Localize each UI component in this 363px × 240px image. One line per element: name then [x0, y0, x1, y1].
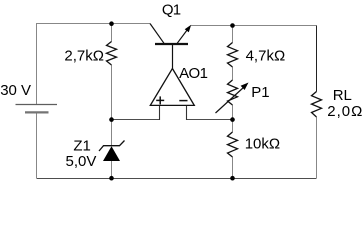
svg-text:2,7kΩ: 2,7kΩ [64, 48, 104, 65]
svg-text:10kΩ: 10kΩ [245, 136, 280, 153]
svg-text:RL: RL [333, 87, 352, 104]
svg-text:5,0V: 5,0V [66, 153, 97, 170]
svg-text:Q1: Q1 [162, 1, 181, 18]
svg-text:P1: P1 [251, 84, 269, 101]
svg-text:Z1: Z1 [73, 137, 91, 154]
svg-text:30 V: 30 V [0, 82, 31, 99]
svg-text:4,7kΩ: 4,7kΩ [246, 48, 286, 65]
svg-text:AO1: AO1 [179, 65, 207, 82]
svg-text:2,0Ω: 2,0Ω [327, 103, 363, 120]
